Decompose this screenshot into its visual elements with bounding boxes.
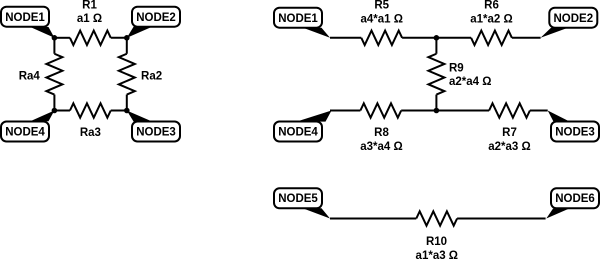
svg-text:R5: R5 [374, 0, 389, 12]
svg-text:NODE3: NODE3 [136, 127, 176, 139]
svg-text:R8: R8 [374, 127, 389, 139]
svg-text:a3*a4 Ω: a3*a4 Ω [360, 141, 402, 153]
svg-text:a1 Ω: a1 Ω [77, 13, 102, 25]
svg-text:a4*a1 Ω: a4*a1 Ω [360, 13, 402, 25]
svg-text:NODE1: NODE1 [5, 12, 45, 24]
svg-text:a2*a3 Ω: a2*a3 Ω [488, 141, 530, 153]
svg-text:NODE6: NODE6 [555, 193, 595, 205]
svg-text:R9: R9 [449, 63, 464, 75]
svg-text:a2*a4 Ω: a2*a4 Ω [449, 76, 491, 88]
svg-text:NODE4: NODE4 [5, 127, 45, 139]
svg-text:Ra2: Ra2 [141, 71, 162, 83]
svg-text:NODE4: NODE4 [278, 127, 318, 139]
svg-text:R10: R10 [426, 236, 447, 248]
svg-text:NODE2: NODE2 [136, 12, 176, 24]
svg-text:NODE1: NODE1 [278, 13, 318, 25]
svg-text:a1*a3 Ω: a1*a3 Ω [416, 250, 458, 260]
svg-text:NODE3: NODE3 [555, 127, 595, 139]
svg-text:Ra4: Ra4 [19, 70, 41, 82]
svg-text:R1: R1 [82, 0, 97, 12]
svg-text:a1*a2 Ω: a1*a2 Ω [470, 13, 512, 25]
svg-text:R7: R7 [502, 127, 517, 139]
svg-text:NODE2: NODE2 [553, 13, 593, 25]
svg-text:Ra3: Ra3 [80, 127, 101, 139]
svg-text:NODE5: NODE5 [278, 193, 318, 205]
svg-text:R6: R6 [484, 0, 499, 12]
